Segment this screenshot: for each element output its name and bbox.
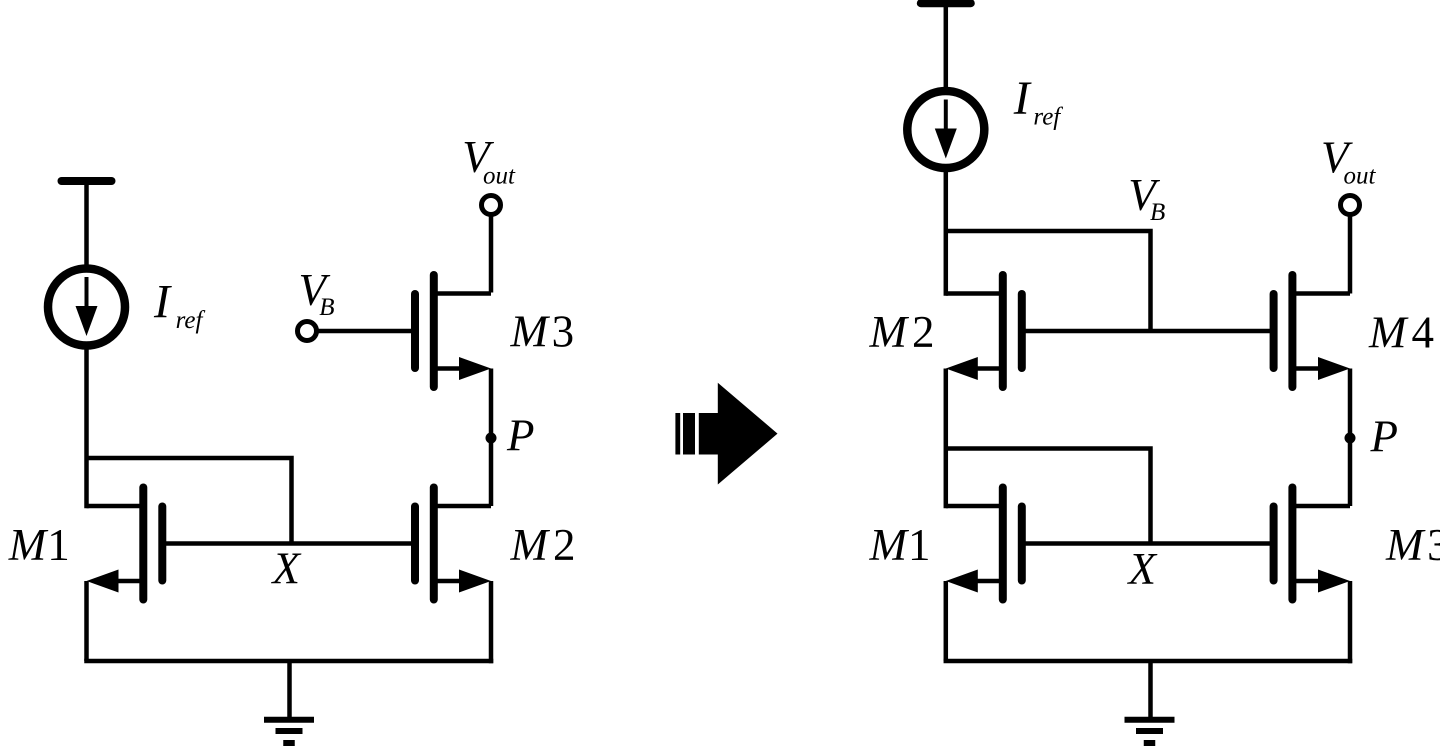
svg-text:M1: M1 [869,520,931,570]
svg-text:I: I [1013,72,1032,125]
svg-text:I: I [153,276,172,329]
svg-text:B: B [319,294,334,321]
svg-text:M4: M4 [1368,308,1434,358]
svg-text:P: P [506,411,535,461]
svg-text:B: B [1150,199,1165,226]
svg-text:M2: M2 [510,520,576,570]
svg-text:out: out [483,163,516,190]
svg-text:M3: M3 [510,307,575,357]
svg-text:M3: M3 [1385,520,1440,570]
svg-text:X: X [1127,544,1158,594]
svg-text:X: X [271,544,302,594]
svg-text:P: P [1370,412,1399,462]
svg-text:ref: ref [176,307,206,334]
svg-text:M2: M2 [869,307,935,357]
svg-text:out: out [1344,163,1377,190]
svg-text:M1: M1 [8,520,70,570]
svg-text:ref: ref [1033,104,1063,131]
